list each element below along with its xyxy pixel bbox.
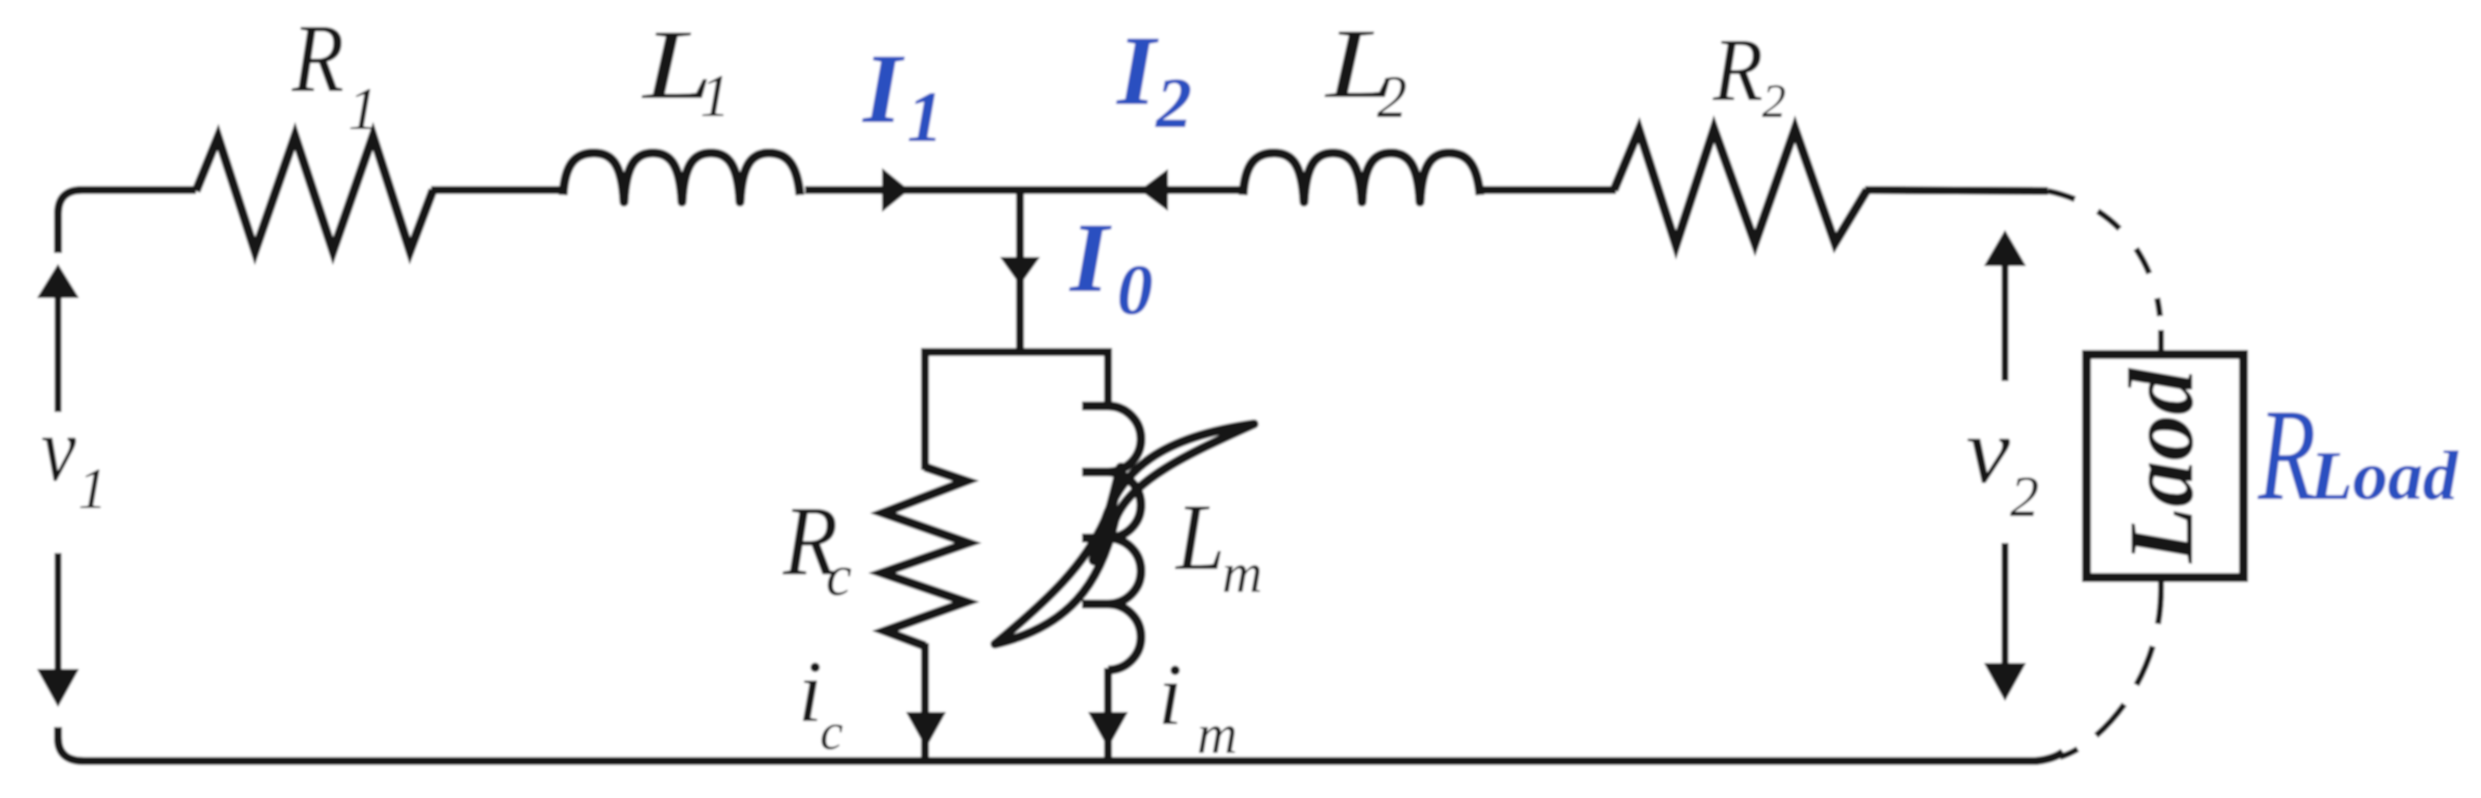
junction vertical wire [1016,190,1024,352]
svg-text:2: 2 [1377,64,1407,130]
svg-text:m: m [1197,704,1237,766]
wire junction to L2 [1021,186,1243,194]
svg-text:2: 2 [1155,63,1192,143]
svg-text:R: R [291,5,344,112]
wire bar to Lm [1104,348,1112,408]
v1 up arrow [37,264,79,298]
svg-text:I: I [1069,202,1112,313]
svg-text:1: 1 [907,77,943,157]
resistor R2 [1614,129,1867,245]
inductor Lm coil [1082,406,1141,670]
svg-text:c: c [826,543,852,608]
load box [2087,355,2244,578]
svg-text:Load: Load [2309,438,2459,515]
wire L2 to R2 [1480,186,1616,194]
wire R1 to L1 [431,186,565,194]
dashed arc bottom-right [2060,582,2161,757]
bottom wire [58,727,2063,761]
svg-text:i: i [1158,647,1182,744]
svg-text:2: 2 [2010,464,2039,529]
svg-text:0: 0 [1117,250,1153,330]
svg-text:c: c [820,704,843,761]
wire L1 to junction [805,186,1021,194]
wire Rc to bottom [921,643,929,759]
svg-text:I: I [1116,15,1159,126]
arrow im [1088,712,1128,748]
svg-text:R: R [1712,21,1763,120]
svg-text:v: v [41,398,76,500]
svg-text:m: m [1222,543,1262,605]
wire R2 to right end [1865,190,2048,191]
svg-text:Laod: Laod [2110,367,2212,564]
svg-text:I: I [862,33,905,144]
arrow I0 [1000,257,1040,285]
svg-text:L: L [1174,484,1225,590]
svg-text:1: 1 [78,456,107,521]
saturation curve of Lm [995,424,1254,644]
arrow ic [906,712,946,748]
v2 up arrow [1984,230,2026,266]
svg-text:R: R [2257,381,2316,528]
wire bar to Rc [921,348,929,470]
svg-text:v: v [1966,399,2010,503]
arrow I1 [882,168,909,212]
v2 down arrow [2002,543,2009,668]
inductor L1 [563,153,800,202]
resistor R1 [196,136,433,251]
svg-text:2: 2 [1762,75,1786,128]
wire Lm to bottom [1104,668,1112,759]
parallel bar [922,348,1112,356]
svg-text:i: i [798,644,822,741]
dashed arc top-right [2048,191,2160,316]
resistor Rc [882,467,968,646]
svg-text:1: 1 [700,63,730,129]
arrow I2 [1140,169,1168,211]
svg-text:1: 1 [348,76,378,142]
wire top-left corner and left stub [58,190,196,253]
inductor L2 [1243,153,1480,202]
v1 down arrow [55,553,62,678]
